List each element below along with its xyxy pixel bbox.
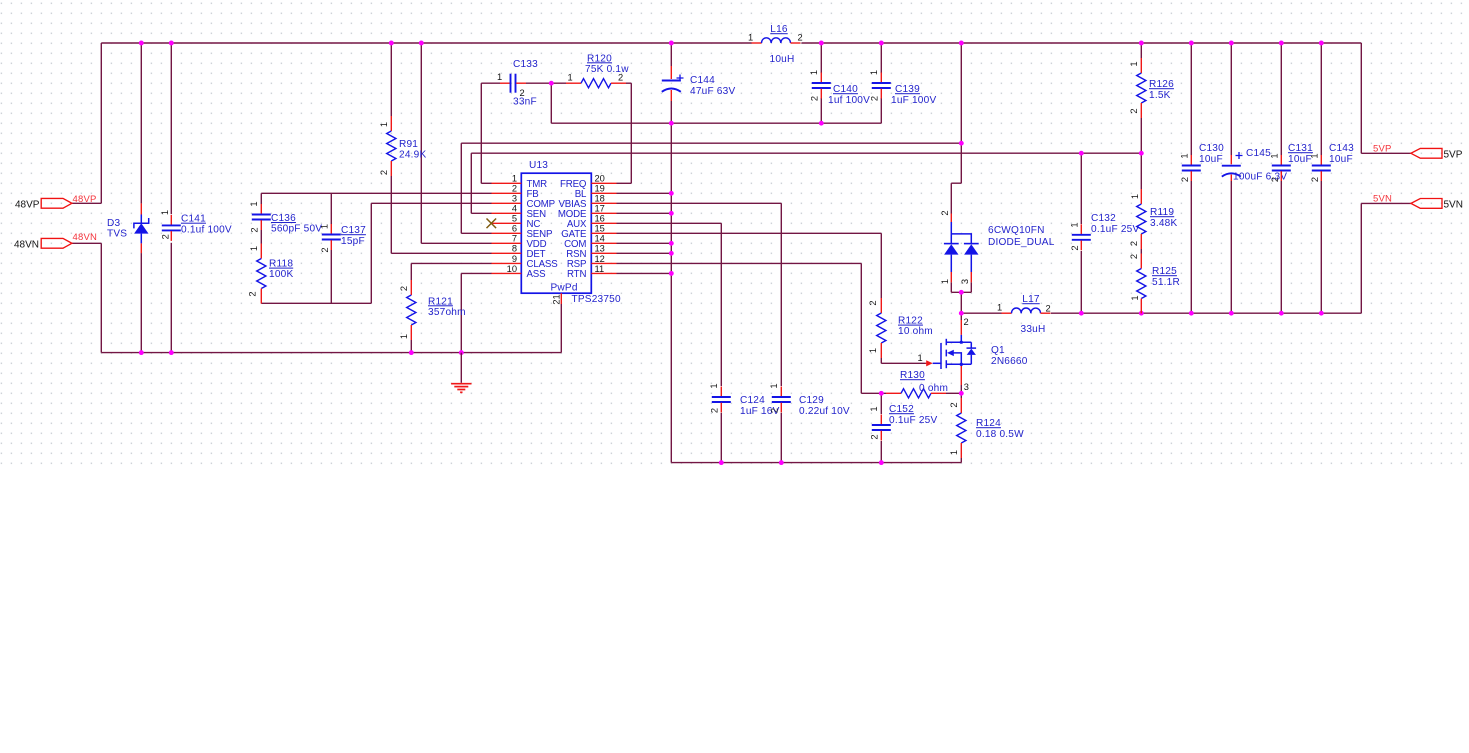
- svg-text:33nF: 33nF: [513, 97, 537, 108]
- wire BL net: [617, 192, 672, 194]
- junction bus C131: [1279, 41, 1284, 46]
- svg-text:2: 2: [949, 402, 959, 407]
- diode-pair D 6CWQ10FN DIODE_DUAL: [940, 210, 1055, 284]
- svg-text:48VN: 48VN: [73, 232, 98, 243]
- capacitor C145 polarized: [1222, 148, 1287, 182]
- port 5VP: [1373, 143, 1463, 160]
- wire C139 column: [880, 43, 882, 123]
- svg-text:2: 2: [512, 184, 517, 194]
- svg-text:0 ohm: 0 ohm: [919, 383, 948, 394]
- svg-text:0.1uF 25V: 0.1uF 25V: [889, 415, 937, 426]
- wire RTN net: [617, 272, 672, 274]
- junction bus C145: [1229, 41, 1234, 46]
- svg-text:Q1: Q1: [991, 345, 1005, 356]
- svg-text:2: 2: [379, 170, 389, 175]
- svg-text:2N6660: 2N6660: [991, 356, 1028, 367]
- wire C137 branch: [330, 193, 332, 303]
- svg-text:R122: R122: [898, 316, 923, 327]
- svg-text:1uf 100V: 1uf 100V: [828, 95, 870, 106]
- junction gate node: [879, 391, 884, 396]
- junction bus diode feed: [959, 41, 964, 46]
- svg-text:6CWQ10FN: 6CWQ10FN: [988, 225, 1045, 236]
- junction rtn C129: [779, 460, 784, 465]
- junction bus R126: [1139, 41, 1144, 46]
- op-amp U13 TPS23750: [492, 160, 621, 305]
- resistor R119: [1129, 189, 1177, 249]
- no-connect pin5: [487, 219, 497, 229]
- inductor L17: [997, 294, 1051, 335]
- svg-text:1: 1: [399, 334, 409, 339]
- junction bypass C144: [669, 121, 674, 126]
- resistor R91: [379, 116, 426, 176]
- wire FB net: [261, 192, 491, 194]
- svg-text:C129: C129: [799, 395, 824, 406]
- wire COM net: [617, 242, 672, 244]
- svg-text:24.9K: 24.9K: [399, 150, 426, 161]
- capacitor C130: [1180, 143, 1225, 182]
- svg-text:1: 1: [160, 210, 170, 215]
- svg-text:C145: C145: [1246, 148, 1271, 159]
- svg-text:2: 2: [1180, 177, 1190, 182]
- svg-text:1.5K: 1.5K: [1149, 90, 1171, 101]
- svg-text:48VP: 48VP: [73, 194, 97, 205]
- svg-text:C152: C152: [889, 404, 914, 415]
- wire R130 to Q1 source: [946, 392, 961, 394]
- svg-text:R121: R121: [428, 296, 453, 307]
- svg-text:2: 2: [964, 317, 969, 327]
- svg-text:C140: C140: [833, 84, 858, 95]
- capacitor C152: [869, 404, 937, 440]
- svg-text:1: 1: [868, 348, 878, 353]
- svg-text:1: 1: [748, 32, 753, 42]
- wire block bottom: [261, 302, 371, 304]
- svg-text:4: 4: [512, 204, 517, 214]
- svg-text:3: 3: [964, 382, 969, 392]
- svg-text:100K: 100K: [269, 269, 293, 280]
- wire R121-CLASS: [411, 263, 491, 352]
- svg-text:TVS: TVS: [107, 229, 127, 240]
- junction bus C143: [1319, 41, 1324, 46]
- wire AUX-C124: [617, 223, 722, 462]
- wire return rail bottom: [671, 462, 961, 464]
- svg-text:1: 1: [1270, 153, 1280, 158]
- svg-text:L17: L17: [1022, 294, 1040, 305]
- junction bus C130: [1189, 41, 1194, 46]
- junction gnd ASS: [459, 350, 464, 355]
- junction RTN RSN: [669, 251, 674, 256]
- svg-text:2: 2: [1129, 108, 1139, 113]
- junction 5V C143: [1319, 311, 1324, 316]
- capacitor C131: [1270, 143, 1314, 182]
- capacitor C137: [320, 224, 367, 253]
- wire C144 column: [670, 43, 672, 123]
- svg-text:1: 1: [1130, 295, 1140, 300]
- wire R124 to rail: [960, 458, 962, 463]
- svg-text:DIODE_DUAL: DIODE_DUAL: [988, 237, 1055, 248]
- svg-text:R119: R119: [1150, 207, 1174, 218]
- svg-text:2: 2: [1046, 303, 1051, 313]
- svg-text:C144: C144: [690, 75, 715, 86]
- svg-text:10uH: 10uH: [770, 54, 795, 65]
- junction bus C139: [879, 41, 884, 46]
- svg-text:R120: R120: [587, 53, 612, 64]
- transistor Q1 2N6660: [918, 317, 1028, 392]
- wire GND rail: [101, 352, 561, 354]
- junction 5V C132: [1079, 311, 1084, 316]
- capacitor C143: [1310, 143, 1355, 182]
- svg-text:1: 1: [709, 383, 719, 388]
- junction bus C141: [169, 41, 174, 46]
- resistor R130 0 ohm: [886, 370, 948, 398]
- svg-text:357ohm: 357ohm: [428, 307, 466, 318]
- svg-text:10uF: 10uF: [1288, 154, 1312, 165]
- capacitor C132: [1070, 213, 1140, 250]
- svg-text:1: 1: [568, 73, 573, 83]
- wire C130 column: [1190, 43, 1192, 313]
- svg-text:C139: C139: [895, 84, 920, 95]
- junction bus R91: [389, 41, 394, 46]
- svg-text:51.1R: 51.1R: [1152, 277, 1180, 288]
- junction RTN COM: [669, 241, 674, 246]
- svg-text:2: 2: [618, 73, 623, 83]
- svg-text:C124: C124: [740, 395, 765, 406]
- svg-text:1: 1: [1180, 153, 1190, 158]
- svg-text:0.18 0.5W: 0.18 0.5W: [976, 429, 1024, 440]
- svg-text:6: 6: [512, 224, 517, 234]
- junction bus C140: [819, 41, 824, 46]
- svg-text:2: 2: [798, 32, 803, 42]
- wire C136-R118 branch: [260, 193, 262, 243]
- svg-text:2: 2: [1270, 177, 1280, 182]
- wire RTN vertical: [670, 123, 672, 462]
- svg-text:1: 1: [869, 406, 879, 411]
- svg-text:2: 2: [770, 408, 780, 413]
- wire rail SENP-right: [461, 142, 961, 144]
- junction 5V Q1: [959, 311, 964, 316]
- inductor L16: [748, 24, 803, 65]
- svg-text:560pF 50V: 560pF 50V: [271, 224, 322, 235]
- junction RTN RTNpin: [669, 271, 674, 276]
- wire RSP-R130: [617, 263, 887, 393]
- resistor R122: [868, 298, 933, 358]
- svg-text:11: 11: [595, 264, 605, 274]
- svg-text:R118: R118: [269, 259, 293, 270]
- wire diode outputs join: [951, 282, 971, 313]
- svg-text:1: 1: [1130, 194, 1140, 199]
- wire VDD bypass rail: [551, 83, 881, 123]
- wire VDD net: [421, 43, 491, 243]
- junction bus D3: [139, 41, 144, 46]
- wire COMP net: [371, 203, 491, 303]
- wire 48V+ top bus: [101, 42, 1361, 44]
- wire VBIAS-C129: [617, 203, 782, 462]
- resistor R120: [566, 53, 629, 88]
- svg-text:0.1uF 25V: 0.1uF 25V: [1091, 224, 1139, 235]
- resistor R124: [949, 398, 1024, 458]
- svg-text:C141: C141: [181, 214, 206, 225]
- svg-text:1: 1: [1129, 61, 1139, 66]
- svg-text:2: 2: [1129, 241, 1139, 246]
- wire C131 column: [1280, 43, 1282, 313]
- svg-text:1: 1: [512, 174, 517, 184]
- wire RSN net: [617, 252, 672, 254]
- wire C145 column: [1230, 43, 1232, 313]
- svg-text:2: 2: [320, 247, 330, 252]
- svg-text:TPS23750: TPS23750: [572, 294, 621, 305]
- wire Q1 source node: [960, 385, 962, 398]
- wire R91-DET: [391, 43, 491, 253]
- svg-text:9: 9: [512, 254, 517, 264]
- svg-text:3: 3: [960, 279, 970, 284]
- svg-text:5: 5: [512, 214, 517, 224]
- svg-text:7: 7: [512, 234, 517, 244]
- svg-text:0.1uf 100V: 0.1uf 100V: [181, 224, 232, 235]
- svg-text:8: 8: [512, 244, 517, 254]
- svg-text:3: 3: [512, 194, 517, 204]
- svg-text:0.22uf 10V: 0.22uf 10V: [799, 406, 850, 417]
- svg-text:RTN: RTN: [567, 269, 586, 280]
- wire C140 column: [820, 43, 822, 123]
- svg-text:13: 13: [595, 244, 605, 254]
- svg-text:2: 2: [161, 234, 171, 239]
- junction rail143 diode: [959, 141, 964, 146]
- svg-text:1: 1: [249, 201, 259, 206]
- svg-text:L16: L16: [770, 24, 788, 35]
- wire rail SEN-right: [471, 152, 1141, 154]
- junction diode out: [959, 290, 964, 295]
- svg-text:2: 2: [940, 210, 950, 215]
- svg-text:5VP: 5VP: [1444, 149, 1463, 160]
- svg-text:R125: R125: [1152, 266, 1177, 277]
- svg-text:1: 1: [1070, 222, 1080, 227]
- junction bypass C140: [819, 121, 824, 126]
- wire C133-R120 node: [526, 82, 566, 84]
- wire 48VP entry: [72, 43, 101, 203]
- capacitor C129: [769, 383, 850, 416]
- svg-text:18: 18: [595, 194, 605, 204]
- svg-text:5VN: 5VN: [1444, 199, 1463, 210]
- svg-text:C133: C133: [513, 59, 538, 70]
- junction rail153 C132: [1079, 151, 1084, 156]
- junction rail153 R126: [1139, 151, 1144, 156]
- svg-text:15: 15: [595, 224, 605, 234]
- svg-text:1: 1: [997, 302, 1002, 312]
- svg-text:ASS: ASS: [527, 269, 547, 280]
- capacitor C139: [869, 70, 936, 106]
- svg-text:2: 2: [250, 227, 260, 232]
- wire SEN net: [471, 153, 491, 213]
- wire C152 branch: [880, 393, 882, 462]
- svg-text:2: 2: [520, 88, 525, 98]
- svg-text:2: 2: [870, 434, 880, 439]
- svg-text:D3: D3: [107, 218, 120, 229]
- resistor R121: [399, 280, 466, 340]
- port 5VN: [1373, 193, 1463, 210]
- junction gnd D3: [139, 350, 144, 355]
- wire 48VN entry: [72, 243, 101, 352]
- ground: [451, 353, 471, 393]
- junction rtn C124: [719, 460, 724, 465]
- wire C132 branch: [1080, 153, 1082, 313]
- svg-text:1: 1: [497, 72, 502, 82]
- svg-text:19: 19: [595, 184, 605, 194]
- junction 5V C131: [1279, 311, 1284, 316]
- svg-text:2: 2: [710, 408, 720, 413]
- svg-text:R126: R126: [1149, 79, 1174, 90]
- wire TMR net: [481, 83, 500, 183]
- svg-text:47uF 63V: 47uF 63V: [690, 86, 735, 97]
- svg-text:1: 1: [918, 353, 923, 363]
- svg-text:1: 1: [379, 122, 389, 127]
- svg-text:U13: U13: [529, 160, 548, 171]
- wire R126 column: [1140, 43, 1142, 153]
- svg-text:10uF: 10uF: [1199, 154, 1223, 165]
- resistor R118: [248, 244, 294, 304]
- junction Q1 source: [959, 391, 964, 396]
- svg-text:1: 1: [1310, 153, 1320, 158]
- junction RTN BL: [669, 191, 674, 196]
- wire 48V to diode pin2: [951, 43, 961, 214]
- wire MODE net: [617, 212, 672, 214]
- svg-text:C136: C136: [271, 213, 296, 224]
- svg-text:1: 1: [249, 246, 259, 251]
- wire R119-R125 link: [1140, 249, 1142, 254]
- wire FREQ net: [617, 83, 632, 183]
- svg-text:16: 16: [595, 214, 605, 224]
- svg-text:2: 2: [248, 291, 258, 296]
- resistor R125: [1129, 254, 1180, 314]
- wire GATE-R122: [617, 233, 926, 363]
- junction 5V R125: [1139, 311, 1144, 316]
- junction RTN MODE: [669, 211, 674, 216]
- svg-text:5VP: 5VP: [1373, 143, 1392, 154]
- junction rtn C152: [879, 460, 884, 465]
- svg-text:48VP: 48VP: [15, 199, 40, 210]
- wire D3 column: [140, 43, 142, 353]
- svg-text:C137: C137: [341, 225, 366, 236]
- svg-text:2: 2: [1310, 177, 1320, 182]
- svg-text:5VN: 5VN: [1373, 193, 1392, 204]
- svg-text:R91: R91: [399, 139, 418, 150]
- svg-text:10: 10: [507, 264, 517, 274]
- svg-text:12: 12: [595, 254, 605, 264]
- svg-text:1: 1: [809, 70, 819, 75]
- svg-text:3.48K: 3.48K: [1150, 218, 1177, 229]
- grid background: [0, 0, 1469, 471]
- wire Q1 drain: [960, 313, 962, 320]
- svg-text:1: 1: [769, 383, 779, 388]
- svg-text:1: 1: [949, 450, 959, 455]
- junction C133-R120: [549, 81, 554, 86]
- svg-text:20: 20: [595, 174, 605, 184]
- svg-text:R124: R124: [976, 418, 1001, 429]
- svg-text:21: 21: [551, 294, 561, 304]
- svg-text:R130: R130: [900, 370, 925, 381]
- junction bus VDD: [419, 41, 424, 46]
- wire 5VP feed: [1361, 43, 1411, 153]
- svg-text:48VN: 48VN: [14, 239, 39, 250]
- port 48VP: [15, 194, 97, 211]
- junction 5V C145: [1229, 311, 1234, 316]
- port 48VN: [14, 232, 97, 250]
- svg-text:15pF: 15pF: [341, 236, 365, 247]
- wire C141 column: [170, 43, 172, 353]
- svg-text:1: 1: [869, 70, 879, 75]
- svg-text:33uH: 33uH: [1021, 324, 1046, 335]
- svg-text:C131: C131: [1288, 143, 1313, 154]
- capacitor C140: [809, 70, 870, 106]
- resistor R126: [1129, 58, 1174, 118]
- wire R119 top: [1140, 153, 1142, 189]
- svg-text:10 ohm: 10 ohm: [898, 326, 933, 337]
- svg-text:1: 1: [320, 224, 330, 229]
- svg-text:1uF 100V: 1uF 100V: [891, 95, 936, 106]
- wire ASS net: [461, 273, 491, 352]
- junction gnd C141: [169, 350, 174, 355]
- capacitor C124: [709, 383, 780, 416]
- wire 5VN riser: [1361, 203, 1411, 313]
- svg-text:2: 2: [399, 286, 409, 291]
- junction bus C144: [669, 41, 674, 46]
- wire PwPd pin21: [560, 304, 562, 353]
- svg-text:PwPd: PwPd: [551, 283, 578, 294]
- svg-text:2: 2: [1129, 254, 1139, 259]
- capacitor C144 polarized: [662, 66, 736, 101]
- wire 5V+ rail: [961, 312, 1361, 314]
- svg-text:C143: C143: [1329, 143, 1354, 154]
- svg-text:C132: C132: [1091, 213, 1116, 224]
- junction 5V C130: [1189, 311, 1194, 316]
- svg-text:14: 14: [595, 234, 605, 244]
- svg-text:2: 2: [870, 96, 880, 101]
- capacitor C136: [249, 201, 322, 234]
- svg-text:10uF: 10uF: [1329, 154, 1353, 165]
- svg-text:2: 2: [868, 300, 878, 305]
- svg-text:1: 1: [940, 279, 950, 284]
- junction gnd R121: [409, 350, 414, 355]
- svg-text:2: 2: [1070, 245, 1080, 250]
- svg-text:C130: C130: [1199, 143, 1224, 154]
- wire C143 column: [1320, 43, 1322, 313]
- diode D3 TVS: [107, 203, 149, 253]
- svg-text:2: 2: [810, 96, 820, 101]
- wire SENP net: [461, 143, 491, 233]
- capacitor C141: [160, 210, 232, 241]
- capacitor C133: [497, 59, 538, 108]
- svg-text:17: 17: [595, 204, 605, 214]
